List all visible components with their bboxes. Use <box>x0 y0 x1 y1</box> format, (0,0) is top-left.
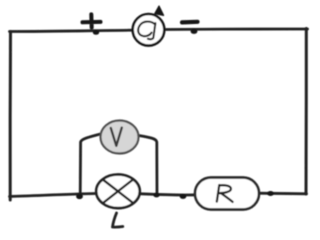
minus sign <box>182 20 198 25</box>
letter R <box>217 185 233 202</box>
wire: right vertical <box>305 29 308 195</box>
wire: top left horizontal <box>10 30 134 31</box>
node dot before resistor <box>180 194 187 199</box>
wire: left vertical <box>9 32 12 201</box>
wire: voltmeter branch right <box>139 136 158 196</box>
letter G <box>138 22 155 40</box>
wire: top right horizontal <box>165 28 308 31</box>
node dot after resistor <box>267 191 274 196</box>
label L <box>113 213 123 227</box>
node dot under minus <box>191 29 198 34</box>
lamp L circle <box>96 175 140 209</box>
galvanometer G circle <box>133 14 165 46</box>
galvanometer needle arrow <box>155 6 164 15</box>
wire: lamp to resistor <box>141 194 196 195</box>
letter V <box>111 128 122 146</box>
resistor R box <box>195 178 259 210</box>
wire: voltmeter branch left <box>80 134 101 197</box>
node dot right junction <box>153 193 159 198</box>
wire: bottom left horizontal <box>10 194 97 197</box>
wire: bottom right horizontal <box>257 192 307 195</box>
lamp X cross <box>103 179 134 203</box>
node dot left junction <box>76 194 83 199</box>
plus sign <box>83 14 101 27</box>
voltmeter V circle <box>101 121 139 154</box>
node dot under plus <box>93 30 99 35</box>
